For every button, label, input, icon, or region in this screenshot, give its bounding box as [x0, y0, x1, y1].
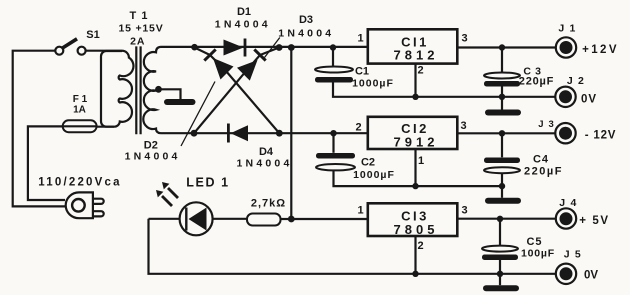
svg-text:F 1: F 1: [73, 94, 88, 105]
svg-text:1N4004: 1N4004: [215, 18, 271, 30]
svg-text:2: 2: [355, 122, 361, 134]
svg-text:1N4004: 1N4004: [237, 158, 293, 170]
svg-text:2,7kΩ: 2,7kΩ: [251, 198, 286, 210]
svg-text:C2: C2: [361, 157, 375, 169]
svg-text:3: 3: [461, 33, 467, 45]
svg-text:1: 1: [418, 155, 424, 167]
svg-text:D3: D3: [299, 14, 313, 26]
svg-text:J 1: J 1: [558, 23, 576, 35]
svg-text:0V: 0V: [581, 94, 597, 106]
svg-text:1A: 1A: [73, 104, 86, 115]
svg-text:J 3: J 3: [538, 119, 555, 130]
svg-text:2A: 2A: [130, 36, 145, 48]
svg-text:D4: D4: [259, 146, 274, 158]
svg-text:220µF: 220µF: [519, 75, 554, 87]
svg-text:1000µF: 1000µF: [353, 169, 395, 181]
svg-text:J 4: J 4: [559, 197, 577, 209]
svg-text:C4: C4: [533, 154, 549, 166]
svg-text:1N4004: 1N4004: [125, 151, 181, 163]
svg-text:C1: C1: [355, 66, 369, 78]
svg-text:1: 1: [357, 205, 363, 217]
svg-text:+12V: +12V: [582, 44, 619, 56]
svg-text:7805: 7805: [394, 222, 439, 237]
svg-text:7912: 7912: [394, 134, 439, 149]
svg-text:100µF: 100µF: [521, 248, 555, 260]
svg-text:T 1: T 1: [130, 10, 149, 22]
svg-text:3: 3: [461, 205, 467, 217]
svg-text:1N4004: 1N4004: [278, 27, 334, 39]
svg-text:0V: 0V: [584, 270, 598, 282]
svg-text:110/220Vca: 110/220Vca: [38, 177, 121, 189]
svg-text:15 +15V: 15 +15V: [118, 23, 163, 35]
svg-text:1: 1: [357, 33, 363, 45]
svg-text:S1: S1: [86, 29, 99, 41]
svg-text:- 12V: - 12V: [585, 129, 617, 141]
svg-text:3: 3: [460, 120, 466, 132]
svg-text:J 2: J 2: [567, 75, 585, 87]
svg-text:7812: 7812: [394, 48, 439, 63]
svg-text:220µF: 220µF: [524, 166, 563, 178]
svg-text:C5: C5: [526, 236, 542, 248]
svg-text:D1: D1: [237, 6, 251, 18]
svg-text:J 5: J 5: [564, 249, 582, 261]
svg-text:+ 5V: + 5V: [579, 215, 609, 227]
svg-text:2: 2: [417, 65, 423, 77]
svg-text:LED 1: LED 1: [186, 176, 229, 190]
svg-text:2: 2: [417, 240, 423, 252]
svg-text:1000µF: 1000µF: [352, 78, 394, 90]
